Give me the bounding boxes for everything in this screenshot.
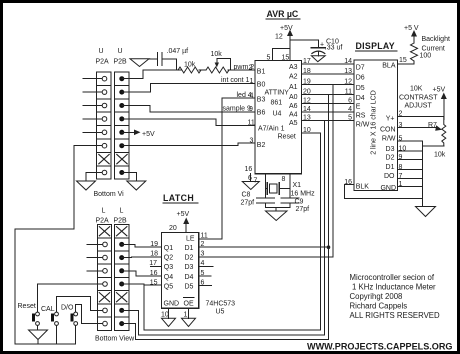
capacitor C9 bbox=[281, 198, 309, 213]
LCD right pin labels bbox=[380, 63, 396, 193]
svg-text:D3: D3 bbox=[185, 264, 194, 271]
svg-text:B2: B2 bbox=[257, 142, 266, 149]
svg-text:D2: D2 bbox=[185, 255, 194, 262]
svg-text:12: 12 bbox=[303, 98, 311, 105]
svg-text:16 MHz: 16 MHz bbox=[291, 191, 316, 198]
svg-text:19: 19 bbox=[303, 79, 311, 86]
svg-text:1 KHz Inductance Meter: 1 KHz Inductance Meter bbox=[352, 283, 436, 292]
wire D3 to ground bus bbox=[398, 150, 423, 152]
P2B upper key X row7 bbox=[117, 154, 127, 163]
svg-text:LATCH: LATCH bbox=[163, 193, 194, 203]
wire D/O net bottom bus bbox=[129, 95, 329, 340]
svg-text:U4: U4 bbox=[273, 111, 282, 118]
chip left pin numbers bbox=[248, 65, 255, 145]
ground under P2A upper bbox=[77, 181, 96, 190]
wire D/O bottom to gnd bus bbox=[75, 325, 77, 343]
wire 18 P2B row3 to latch Q2 bbox=[129, 256, 162, 259]
wire BLK to ground bus bbox=[345, 185, 423, 207]
svg-text:CAL: CAL bbox=[41, 306, 55, 313]
LCD left pin numbers bbox=[344, 58, 352, 186]
capacitor C10 bbox=[311, 39, 342, 56]
svg-text:D3: D3 bbox=[386, 146, 395, 153]
svg-text:BLA: BLA bbox=[382, 63, 396, 70]
wire chip Reset pin10 bbox=[302, 132, 321, 134]
svg-text:U: U bbox=[99, 48, 104, 55]
connector P2A upper column bbox=[97, 72, 111, 179]
wire +5V branch to C10 bbox=[290, 40, 318, 48]
wire latch D2 to bus riser bbox=[199, 85, 333, 257]
wire latch GND to ground bbox=[168, 308, 170, 318]
svg-text:BLK: BLK bbox=[356, 184, 370, 191]
wire pwm net from P2B row1 bbox=[129, 70, 181, 79]
svg-text:X1: X1 bbox=[293, 182, 302, 189]
svg-text:74HC573: 74HC573 bbox=[206, 301, 236, 308]
svg-text:6: 6 bbox=[348, 98, 352, 105]
LCD module box bbox=[354, 60, 398, 191]
svg-text:A1: A1 bbox=[289, 84, 298, 91]
svg-text:16: 16 bbox=[245, 166, 253, 173]
svg-text:B0: B0 bbox=[257, 82, 266, 89]
svg-text:861: 861 bbox=[271, 100, 283, 107]
wire pot to chip B1 pwm bbox=[228, 69, 255, 71]
power +5V backlight bbox=[404, 25, 450, 53]
title DISPLAY bbox=[356, 41, 398, 51]
svg-text:OE: OE bbox=[184, 301, 194, 308]
svg-text:DO: DO bbox=[384, 173, 395, 180]
wire 17 to latch Q3 bbox=[151, 265, 162, 267]
svg-text:A2: A2 bbox=[289, 74, 298, 81]
label 10K CONTRAST ADJUST bbox=[399, 86, 445, 110]
wire ground to .047uf capacitor bbox=[149, 58, 157, 60]
svg-text:D2: D2 bbox=[386, 154, 395, 161]
svg-text:R/W: R/W bbox=[356, 122, 370, 129]
svg-text:Richard Cappels: Richard Cappels bbox=[350, 302, 408, 311]
P2A lower key X row1 bbox=[99, 227, 109, 236]
wire CAL net bottom bus bbox=[129, 121, 325, 335]
svg-text:AVR µC: AVR µC bbox=[267, 9, 299, 19]
ground under C10 bbox=[311, 56, 325, 62]
ground under chip pins 16/6 bbox=[242, 182, 259, 190]
svg-text:Reset: Reset bbox=[18, 303, 36, 310]
svg-text:15: 15 bbox=[150, 279, 158, 286]
resistor 100 backlight bbox=[411, 43, 432, 61]
svg-text:+: + bbox=[320, 41, 324, 48]
svg-text:Reset: Reset bbox=[278, 134, 296, 141]
svg-text:R/W: R/W bbox=[382, 136, 396, 143]
svg-text:11: 11 bbox=[345, 89, 352, 96]
P2A upper pins (open circles rows 1-6,8) bbox=[102, 76, 107, 174]
svg-text:D4: D4 bbox=[185, 274, 194, 281]
ground at .047uf capacitor bbox=[130, 59, 149, 67]
svg-text:10k: 10k bbox=[211, 51, 223, 58]
svg-text:U: U bbox=[118, 48, 123, 55]
wire 15 P2B row5 to latch Q5 bbox=[129, 283, 162, 286]
wire 16 P2B row4 to latch Q4 bbox=[129, 271, 162, 276]
wire P2A row8 to ground bbox=[86, 173, 97, 182]
wire pot bottom to ground bus bbox=[422, 145, 444, 147]
svg-text:10k: 10k bbox=[184, 62, 196, 69]
wire R/W to ground bus bbox=[398, 140, 423, 142]
P2B upper pins (filled rows 1-6,8) bbox=[119, 76, 124, 175]
svg-text:A0: A0 bbox=[289, 94, 298, 101]
wire Y+ to +5V bbox=[398, 116, 444, 118]
wire +5V to pin 5 bbox=[273, 47, 291, 49]
ground under latch GND bbox=[162, 318, 176, 326]
svg-text:ADJUST: ADJUST bbox=[405, 103, 433, 110]
svg-text:B6: B6 bbox=[257, 110, 266, 117]
svg-text:18: 18 bbox=[303, 68, 311, 75]
svg-text:+5V: +5V bbox=[177, 211, 190, 218]
svg-text:5: 5 bbox=[348, 115, 352, 122]
svg-text:D4: D4 bbox=[356, 95, 365, 102]
svg-text:A4: A4 bbox=[289, 112, 298, 119]
wires chip A3-A5 to LCD D7..R/W bbox=[302, 64, 355, 121]
ground under crystal caps bbox=[266, 211, 288, 221]
title AVR uC bbox=[266, 9, 300, 19]
svg-text:A7/Ain 1: A7/Ain 1 bbox=[258, 126, 285, 133]
svg-text:D7: D7 bbox=[356, 65, 365, 72]
svg-text:12: 12 bbox=[275, 34, 283, 41]
svg-text:20: 20 bbox=[169, 225, 177, 232]
ground symbol right bbox=[416, 207, 436, 217]
svg-text:6: 6 bbox=[248, 175, 252, 182]
svg-text:E: E bbox=[356, 104, 361, 111]
svg-text:C9: C9 bbox=[295, 199, 304, 206]
switch D/O bbox=[70, 312, 77, 325]
wire latch D4 stub bbox=[199, 275, 211, 277]
wire Reset to P2A row5 bbox=[38, 284, 98, 312]
wire P2A upper row6 loop to bottom bus bbox=[15, 146, 97, 344]
svg-text:A6: A6 bbox=[289, 103, 298, 110]
svg-text:1: 1 bbox=[184, 312, 188, 319]
potentiometer R7 10k vertical bbox=[434, 117, 446, 159]
svg-text:+5V: +5V bbox=[280, 25, 293, 32]
wire resistor to BLA bbox=[398, 61, 415, 64]
svg-text:CONTRAST: CONTRAST bbox=[399, 95, 438, 102]
capacitor .047uf bbox=[158, 48, 189, 66]
svg-text:10: 10 bbox=[161, 312, 169, 319]
svg-text:CON: CON bbox=[380, 127, 396, 134]
LCD left pin labels bbox=[356, 65, 370, 191]
svg-text:17: 17 bbox=[303, 58, 311, 65]
svg-text:Bottom View: Bottom View bbox=[95, 336, 135, 343]
connector P2B lower column bbox=[115, 225, 129, 331]
crystal X1 bbox=[266, 182, 316, 198]
wire D2 to ground bus bbox=[398, 159, 423, 161]
svg-text:ALL RIGHTS RESERVED: ALL RIGHTS RESERVED bbox=[350, 311, 440, 320]
power +5V at AVR pin 12 bbox=[275, 25, 293, 60]
connector P2A lower column bbox=[97, 225, 111, 331]
svg-text:D5: D5 bbox=[185, 283, 194, 290]
P2B lower key X row6 bbox=[117, 293, 127, 302]
svg-text:11: 11 bbox=[201, 233, 208, 240]
svg-text:4: 4 bbox=[348, 106, 352, 113]
latch U5 74HC573 box bbox=[162, 233, 199, 309]
wire D/O top to P2A row8 bbox=[76, 305, 98, 324]
svg-text:GND: GND bbox=[164, 301, 180, 308]
P2A upper key X row7 bbox=[99, 154, 109, 163]
wire .047uf capacitor to pwm line bbox=[162, 59, 177, 70]
svg-text:13: 13 bbox=[344, 68, 352, 75]
svg-text:DISPLAY: DISPLAY bbox=[356, 41, 395, 51]
svg-text:.33 uf: .33 uf bbox=[325, 44, 343, 51]
svg-text:led 4: led 4 bbox=[237, 92, 252, 99]
svg-text:7: 7 bbox=[254, 178, 258, 185]
svg-text:B3: B3 bbox=[257, 97, 266, 104]
ground under P2B upper bbox=[127, 181, 146, 190]
P2B lower key X row1 bbox=[117, 227, 127, 236]
title LATCH bbox=[163, 193, 198, 203]
svg-text:P2A: P2A bbox=[96, 218, 110, 225]
wire reset net bottom bus bbox=[144, 133, 320, 330]
capacitor C8 bbox=[241, 192, 275, 207]
chip right pin numbers bbox=[303, 58, 311, 134]
svg-text:Copyrihgt 2008: Copyrihgt 2008 bbox=[350, 292, 403, 301]
svg-text:27pf: 27pf bbox=[296, 206, 310, 213]
latch right pin numbers bbox=[161, 233, 208, 319]
wire 19 P2B row2 to latch Q1 bbox=[129, 244, 162, 247]
resistor 10k (series) bbox=[178, 62, 201, 74]
microcontroller U4 ATTINY 861 box bbox=[255, 60, 301, 173]
text block copyright bbox=[350, 273, 440, 320]
svg-text:D1: D1 bbox=[386, 164, 395, 171]
svg-text:P2A: P2A bbox=[96, 59, 110, 66]
svg-text:100: 100 bbox=[420, 53, 432, 60]
wire latch OE to ground bbox=[188, 308, 190, 318]
svg-text:A5: A5 bbox=[289, 120, 298, 127]
svg-text:WWW.PROJECTS.CAPPELS.ORG: WWW.PROJECTS.CAPPELS.ORG bbox=[307, 341, 453, 351]
P2A lower left stubs bbox=[87, 244, 129, 323]
svg-text:+5V: +5V bbox=[433, 87, 446, 94]
svg-text:C8: C8 bbox=[242, 192, 251, 199]
wire CAL bottom to gnd bus bbox=[56, 325, 58, 343]
wire latch D3 stub bbox=[199, 265, 213, 267]
wire int cont from P2B row2 to chip B0 bbox=[129, 84, 255, 93]
svg-text:Q2: Q2 bbox=[164, 255, 173, 262]
svg-text:L: L bbox=[120, 208, 124, 215]
svg-text:20: 20 bbox=[303, 89, 311, 96]
svg-text:14: 14 bbox=[303, 106, 311, 113]
svg-text:Q5: Q5 bbox=[164, 283, 173, 290]
svg-text:P2B: P2B bbox=[114, 59, 128, 66]
svg-text:2 line X 16 char LCD: 2 line X 16 char LCD bbox=[371, 90, 378, 155]
wire A7/Ain from P2B row4 to chip pin 11 bbox=[129, 119, 255, 126]
P2B lower pins filled circles bbox=[119, 242, 124, 326]
wire B2 from P2B row6 to chip pin 3 bbox=[129, 143, 255, 146]
svg-text:LE: LE bbox=[186, 236, 195, 243]
svg-text:Q4: Q4 bbox=[164, 274, 173, 281]
switch CAL bbox=[51, 312, 58, 325]
wire DO to ground bus bbox=[398, 178, 423, 180]
svg-text:sample 9: sample 9 bbox=[223, 106, 252, 113]
svg-text:D/O: D/O bbox=[61, 305, 74, 312]
svg-text:ATTINY: ATTINY bbox=[265, 90, 290, 97]
potentiometer 10k (pwm) bbox=[206, 51, 231, 73]
svg-text:+5V: +5V bbox=[142, 131, 155, 138]
svg-text:L: L bbox=[102, 208, 106, 215]
connector P2B upper column bbox=[115, 72, 129, 179]
ground under Reset bbox=[29, 330, 48, 344]
switch Reset bbox=[32, 312, 39, 325]
wire LE to chip B3 riser bbox=[199, 98, 222, 239]
pin 16 and 6 chip gnd stub bbox=[245, 166, 253, 182]
svg-text:10k: 10k bbox=[434, 152, 446, 159]
svg-text:8: 8 bbox=[282, 176, 286, 183]
svg-text:Microcontroller secion of: Microcontroller secion of bbox=[350, 273, 435, 282]
svg-text:Backlight: Backlight bbox=[422, 36, 450, 43]
wire between resistor and pot bbox=[199, 69, 206, 71]
wires caps to ground bbox=[266, 203, 291, 211]
P2A lower pins open circles bbox=[103, 242, 108, 326]
svg-text:Y+: Y+ bbox=[386, 116, 395, 123]
P2A upper left stubs bbox=[83, 79, 129, 173]
svg-text:.047 µf: .047 µf bbox=[167, 48, 189, 55]
svg-text:GND: GND bbox=[380, 185, 396, 192]
svg-text:Bottom Vi: Bottom Vi bbox=[94, 191, 125, 198]
P2A lower key X row6 bbox=[99, 293, 109, 302]
svg-text:14: 14 bbox=[344, 58, 352, 65]
svg-text:15: 15 bbox=[399, 57, 407, 64]
svg-text:10K: 10K bbox=[410, 86, 423, 93]
power +5V latch bbox=[169, 211, 189, 233]
svg-text:B1: B1 bbox=[257, 69, 266, 76]
ground under latch OE bbox=[182, 318, 196, 326]
latch internal labels bbox=[164, 236, 195, 308]
power +5V arrow contrast bbox=[441, 93, 447, 120]
svg-text:13: 13 bbox=[303, 115, 311, 122]
junction D1 bus bbox=[327, 245, 331, 249]
ground bus vertical right bbox=[421, 141, 423, 207]
wire GND to ground bus bbox=[398, 186, 423, 188]
latch left pin numbers bbox=[149, 241, 158, 286]
svg-text:Current: Current bbox=[422, 46, 445, 53]
wire latch D5 stub bbox=[199, 285, 212, 287]
wire ground bus bottom left bbox=[15, 343, 76, 345]
wire sample from P2B row3 to chip B6 bbox=[129, 106, 255, 113]
wire CAL top to P2A row7 bbox=[57, 297, 98, 312]
svg-text:A3: A3 bbox=[289, 64, 298, 71]
wire Reset bottom to ground bbox=[37, 325, 39, 330]
svg-text:27pf: 27pf bbox=[241, 200, 255, 207]
svg-text:U5: U5 bbox=[216, 309, 225, 316]
svg-text:D5: D5 bbox=[356, 85, 365, 92]
wire pin8 down bbox=[289, 174, 291, 198]
+5V arrow at P2B row5 bbox=[129, 130, 155, 139]
chip U4 internal labels bbox=[257, 64, 298, 149]
svg-text:Q1: Q1 bbox=[164, 245, 173, 252]
svg-text:P2B: P2B bbox=[114, 218, 128, 225]
svg-text:RS: RS bbox=[356, 113, 366, 120]
wire D1 to ground bus bbox=[398, 169, 423, 171]
wire P2B row8 to ground bbox=[129, 173, 136, 182]
svg-text:D1: D1 bbox=[185, 245, 194, 252]
svg-text:D6: D6 bbox=[356, 75, 365, 82]
svg-text:int cont 1: int cont 1 bbox=[221, 77, 250, 84]
svg-text:12: 12 bbox=[344, 79, 352, 86]
wire latch D1 to bus bbox=[199, 246, 329, 248]
svg-text:pwm 2: pwm 2 bbox=[234, 64, 255, 71]
wire CON wiper arrow bbox=[398, 125, 443, 131]
svg-text:Q3: Q3 bbox=[164, 264, 173, 271]
wire led from latch LE riser to chip B3 bbox=[222, 97, 255, 99]
svg-text:+5 V: +5 V bbox=[404, 25, 419, 32]
wire pin7 down bbox=[265, 174, 267, 198]
